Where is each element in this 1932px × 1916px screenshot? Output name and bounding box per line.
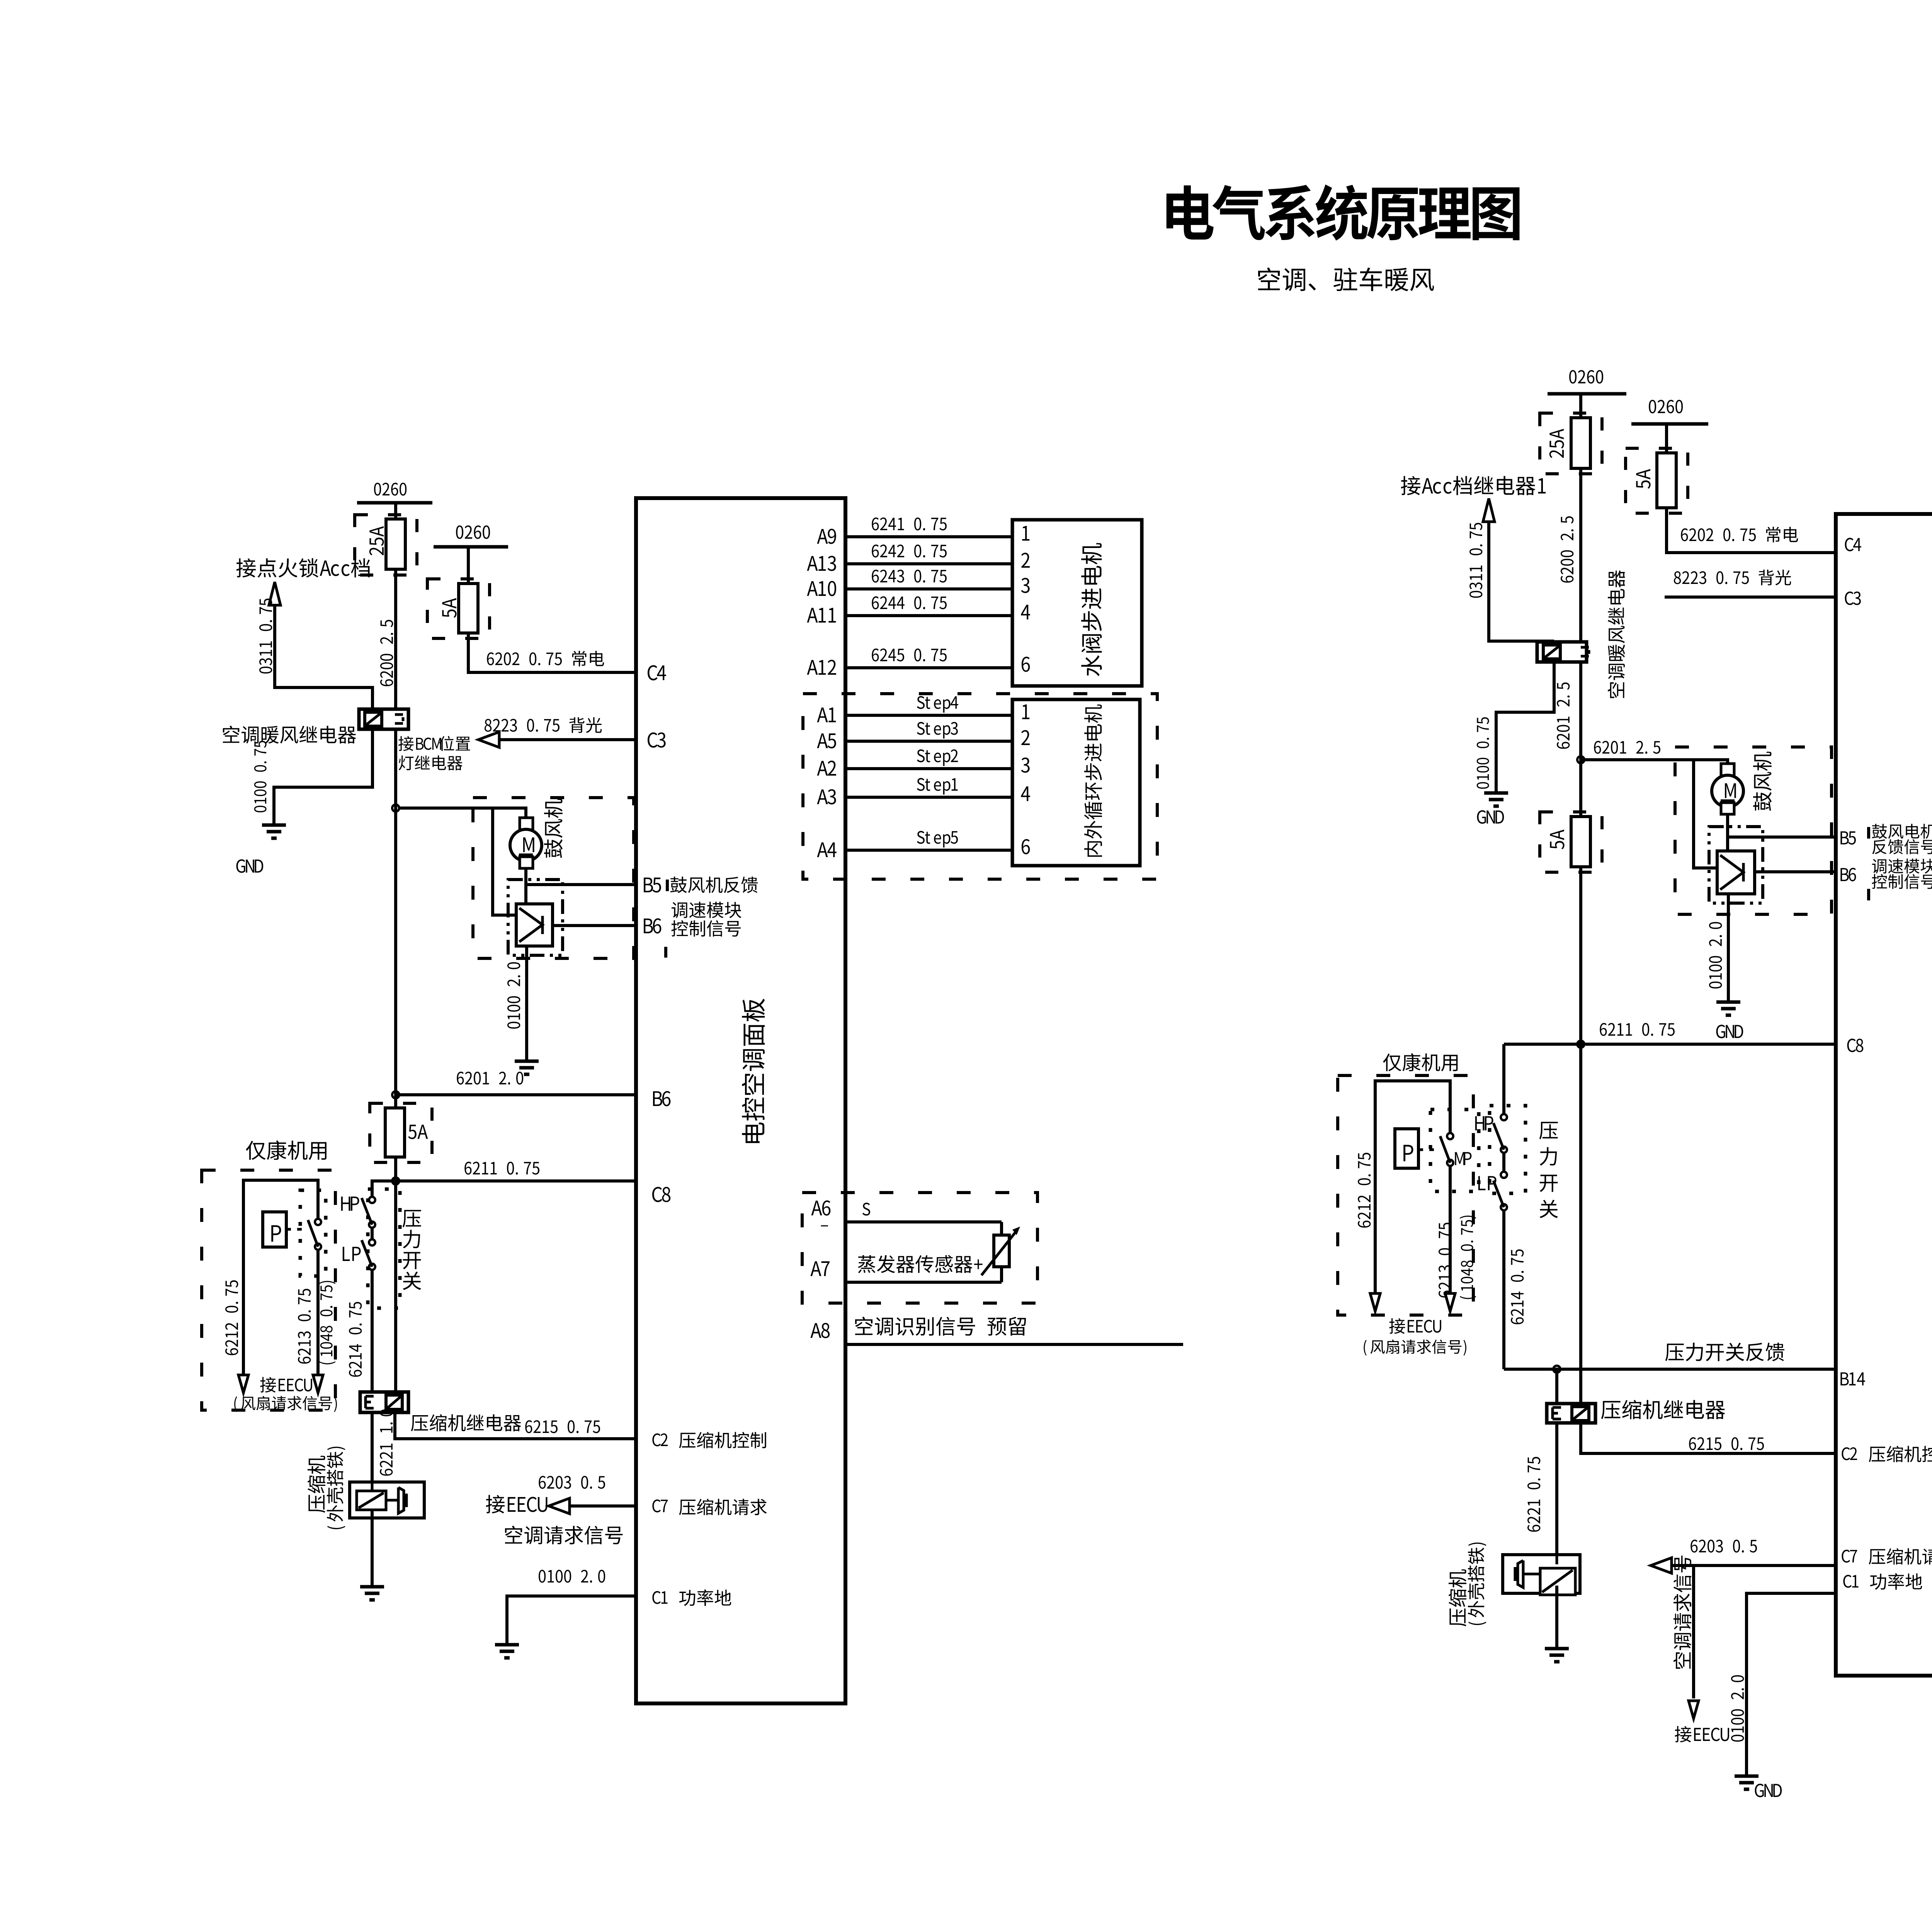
pin C2 right bbox=[1842, 1447, 1857, 1460]
label 5A right bbox=[1636, 469, 1650, 489]
pin A6 bbox=[811, 1200, 830, 1215]
pin C7 right bbox=[1842, 1550, 1857, 1562]
label GND bbox=[236, 859, 264, 873]
power bus 0260 #2 (left) bbox=[456, 526, 490, 539]
wire label 0100 2.0 bbox=[507, 962, 520, 1029]
wire junction to speed module input bbox=[493, 808, 516, 915]
wire 6202 0.75 常电 right bbox=[1667, 508, 1836, 553]
speed module 调速模块 (right) bbox=[1709, 827, 1763, 903]
arrow to EECU 6212 bbox=[238, 1375, 248, 1393]
wire 0311 0.75 (left) bbox=[275, 605, 372, 709]
label 风扇请求信号 (left) bbox=[234, 1396, 337, 1412]
wire 6200 (relay to junction) bbox=[394, 729, 397, 1095]
label 压缩机 right bbox=[1449, 1569, 1466, 1626]
arrow to BCM bbox=[478, 732, 499, 747]
ground (compressor right) bbox=[1545, 1647, 1569, 1651]
pin C8 right bbox=[1847, 1039, 1864, 1052]
pin B14 bbox=[1840, 1372, 1865, 1385]
blower motor M3 鼓风机 (right) bbox=[1721, 764, 1734, 776]
label 空调暖风继电器 bbox=[223, 726, 356, 744]
wire 0311 0.75 right bbox=[1489, 522, 1554, 641]
wire B5 鼓风电机反馈信号 bbox=[1728, 835, 1836, 839]
wire label 0100 2.0 C1 right bbox=[1731, 1675, 1744, 1742]
wire label 6201 2.5 vertical bbox=[1557, 682, 1570, 749]
wire 0100 2.0 C1 right bbox=[1747, 1593, 1836, 1776]
wire 0100 2.0 C1 to ground bbox=[507, 1596, 636, 1645]
wire A8 空调识别信号 bbox=[845, 1343, 1183, 1346]
pin C1 bbox=[652, 1591, 667, 1604]
motor M2 水阀步进电机 (left) bbox=[1012, 520, 1142, 686]
relay K3 空调暖风继电器 (right) bbox=[1537, 642, 1587, 662]
wire label 6214 0.75 bbox=[349, 1302, 362, 1377]
wire label 6202 0.75 常电 bbox=[487, 651, 604, 667]
label 仅康机用 right bbox=[1383, 1053, 1458, 1072]
pin C4 right bbox=[1845, 538, 1861, 551]
dashed box evaporator sensor (left) bbox=[802, 1193, 1037, 1303]
label minus bbox=[821, 1225, 828, 1227]
arrow to EECU 6212 right bbox=[1370, 1293, 1380, 1311]
dotted box pressure switch right bbox=[1490, 1106, 1526, 1193]
wire Step3 pin A5 bbox=[845, 740, 1012, 743]
speed module 调速模块 (left) bbox=[508, 880, 563, 955]
dashed box blower assembly (right) bbox=[1675, 747, 1832, 914]
wire 6215 0.75 to C2 bbox=[395, 1412, 636, 1439]
fuse F3 5A (left lower) bbox=[385, 1108, 405, 1157]
label HP right bbox=[1475, 1116, 1493, 1130]
wire label 0311 0.75 right bbox=[1469, 523, 1482, 598]
label 压缩机请求 bbox=[679, 1499, 767, 1515]
wire bus to fuse bbox=[1579, 394, 1582, 418]
ground (C1 left) bbox=[495, 1643, 519, 1647]
pin C8 bbox=[652, 1187, 670, 1202]
label 5A lower bbox=[408, 1125, 428, 1139]
fuse 5A (right) bbox=[1657, 453, 1676, 508]
arrow C7 to EECU right bbox=[1651, 1558, 1672, 1573]
label 接EECU (left) bbox=[260, 1377, 312, 1393]
wire label 6200 2.5 right bbox=[1561, 516, 1573, 583]
wire 6243 0.75 pin A10 bbox=[845, 587, 1012, 590]
dashed box blower assembly (left) bbox=[473, 798, 634, 958]
label 外壳搭铁 (left) bbox=[327, 1447, 345, 1529]
ground (C1 right) bbox=[1735, 1775, 1759, 1778]
wire B14 junction to relay coil bbox=[1555, 1369, 1558, 1404]
label 功率地 right bbox=[1870, 1573, 1922, 1590]
node junction C8/6211 bbox=[392, 1178, 399, 1184]
label 接EECU C7 bbox=[486, 1495, 547, 1513]
ground (module right) bbox=[1716, 1001, 1740, 1004]
wire junction to blower right bbox=[1581, 760, 1728, 775]
pressure sensor P (left) bbox=[263, 1212, 286, 1247]
pin B6 (power) bbox=[653, 1091, 670, 1106]
node junction 6201 bbox=[392, 1091, 399, 1098]
wire label 0100 0.75 bbox=[254, 741, 267, 812]
label 压力开关 (left) bbox=[403, 1210, 421, 1227]
wire compressor to ground bbox=[371, 1510, 374, 1587]
wire label 6215 0.75 bbox=[525, 1420, 600, 1433]
wire 6213 right bbox=[1449, 1166, 1452, 1293]
label 内外循环步进电机 (left) bbox=[1084, 704, 1102, 857]
label 接BCM位置 bbox=[398, 736, 470, 751]
wire 6212 right bbox=[1375, 1081, 1450, 1293]
node junction B14 bbox=[1553, 1366, 1560, 1373]
label 压缩机控制 bbox=[679, 1432, 766, 1448]
label 5A main right bbox=[1550, 830, 1564, 849]
wire 6203 0.5 C7 to EECU bbox=[567, 1504, 636, 1508]
pressure switch HP (left) bbox=[369, 1197, 375, 1203]
label 接EECU right bbox=[1389, 1318, 1441, 1334]
ECU box 自动空调 bbox=[1836, 514, 1932, 1676]
wire B6 调速模块控制信号 bbox=[553, 924, 636, 927]
wire 6245 0.75 pin A12 bbox=[845, 666, 1012, 669]
wire junction to blower motor bbox=[400, 808, 526, 830]
wire Step4 pin A1 bbox=[845, 714, 1012, 717]
fuse F1 25A (left) bbox=[386, 519, 405, 569]
pressure sensor P (right) bbox=[1395, 1129, 1418, 1168]
dashed box 仅康机用 (left) bbox=[202, 1170, 335, 1410]
relay K1 空调暖风继电器 (left) bbox=[359, 709, 408, 729]
wire label 0100 2.0 C1 bbox=[539, 1570, 605, 1582]
fuse 25A (right) bbox=[1571, 418, 1590, 468]
pin C3 right bbox=[1845, 592, 1861, 605]
dash mark B6 right bbox=[1867, 889, 1870, 900]
wire 6211 0.75 to C8 bbox=[396, 1179, 636, 1183]
wire label 6203 0.5 right bbox=[1690, 1540, 1757, 1552]
wire 6201 2.5 main vertical right bbox=[1579, 662, 1582, 1404]
wire 6215 0.75 right bbox=[1581, 1423, 1836, 1453]
label 压缩机 (left) bbox=[308, 1456, 325, 1513]
label 5A bbox=[442, 598, 456, 618]
wire A7 (sensor return) bbox=[845, 1281, 1002, 1284]
wire HP to LP bbox=[371, 1228, 374, 1239]
label 压缩机继电器 (left) bbox=[411, 1414, 521, 1431]
label 空调识别信号 预留 (left) bbox=[855, 1317, 1026, 1336]
label 空调暖风继电器 right bbox=[1608, 570, 1625, 698]
wire label 0100 0.75 right bbox=[1477, 717, 1489, 789]
fuse 5A main (right) bbox=[1571, 817, 1590, 867]
wire label 8223 right bbox=[1674, 570, 1791, 585]
compressor 压缩机 (right) bbox=[1503, 1555, 1580, 1593]
compressor 压缩机 (left) bbox=[350, 1482, 424, 1518]
dash mark B6 bbox=[664, 947, 667, 958]
label LP right bbox=[1478, 1176, 1497, 1190]
wire 6242 0.75 pin A13 bbox=[845, 562, 1012, 565]
relay K2 压缩机继电器 (left) bbox=[360, 1392, 408, 1412]
wire compressor to ground right bbox=[1555, 1586, 1558, 1649]
wire B5 鼓风机反馈 bbox=[526, 885, 636, 904]
wire label 6212 0.75 right bbox=[1358, 1153, 1371, 1228]
wire junction to fuse F3 bbox=[394, 1095, 397, 1181]
dotted box MP switch (left) bbox=[300, 1190, 326, 1276]
label 压缩机继电器 right bbox=[1601, 1400, 1725, 1419]
pin B6 (module) bbox=[644, 918, 661, 933]
wire C8 junction to pressure switch bbox=[372, 1181, 396, 1197]
wire label 6212 0.75 bbox=[225, 1280, 238, 1355]
node junction C8 right bbox=[1577, 1041, 1584, 1048]
ground (blower module) bbox=[515, 1060, 539, 1063]
label GND C1 right bbox=[1755, 1784, 1782, 1797]
wire label 6203 0.5 bbox=[539, 1476, 605, 1489]
label GND module right bbox=[1716, 1025, 1743, 1038]
arrow to Acc bbox=[269, 582, 281, 605]
label 风扇请求信号 right bbox=[1364, 1339, 1466, 1356]
label 压力开关反馈 bbox=[1665, 1343, 1784, 1361]
label 控制信号 bbox=[671, 920, 740, 937]
node junction 6201 right bbox=[1577, 756, 1584, 763]
wire 8223 0.75 背光 right bbox=[1665, 596, 1836, 599]
label 压缩机控制 right bbox=[1869, 1446, 1932, 1462]
dotted box pressure switch (left) bbox=[368, 1189, 400, 1308]
node junction blower tap bbox=[392, 805, 399, 812]
blower motor M1 鼓风机 (left) bbox=[520, 818, 533, 830]
wire 6212 branch (left) bbox=[243, 1180, 318, 1378]
wire blower to speed module bbox=[524, 868, 527, 904]
wire label (1048 0.75) bbox=[319, 1281, 336, 1365]
wire module to ground right bbox=[1727, 894, 1730, 1002]
label 鼓风电机 bbox=[1872, 824, 1932, 839]
wire B6 调速模块控制信号 bbox=[1755, 870, 1836, 873]
ground GND (left relay) bbox=[262, 824, 286, 827]
pressure switch LP (left) bbox=[369, 1239, 375, 1246]
dashed box 内外循环 group (left) bbox=[803, 694, 1157, 879]
dashed box 仅康机用 (right) bbox=[1338, 1075, 1473, 1315]
wire relay coil to ground (right) bbox=[1496, 662, 1554, 793]
ground (compressor left) bbox=[360, 1585, 384, 1589]
wire label 6213 0.75 bbox=[298, 1289, 311, 1364]
relay K4 压缩机继电器 (right) bbox=[1547, 1404, 1595, 1423]
wire 8223 0.75 背光 to C3 bbox=[499, 738, 636, 741]
pin C7 bbox=[652, 1499, 668, 1512]
label MP bbox=[1455, 1152, 1471, 1165]
wire label 6215 0.75 right bbox=[1689, 1437, 1764, 1450]
wire junction to module right bbox=[1694, 760, 1717, 868]
label 鼓风机 bbox=[544, 799, 563, 858]
wire label 6201 2.5 horizontal bbox=[1594, 741, 1660, 754]
label 接Acc档继电器1 bbox=[1401, 476, 1546, 495]
wire 6200 2.5 (fuse to relay) bbox=[394, 569, 397, 709]
wire label 0311 0.75 bbox=[259, 599, 272, 674]
label 空调请求信号 (left) bbox=[505, 1526, 623, 1544]
wire blower to module right bbox=[1726, 814, 1729, 851]
wire Step5 pin A4 bbox=[845, 849, 1012, 852]
ECU box 电控空调面板 bbox=[636, 498, 845, 1703]
arrow to EECU 6213 right bbox=[1445, 1293, 1455, 1311]
label 鼓风机反馈 bbox=[670, 876, 758, 893]
wire A6 S (sensor signal) bbox=[845, 1220, 1002, 1223]
subtitle 空调、驻车暖风 bbox=[1258, 267, 1434, 291]
pin A8 bbox=[810, 1323, 830, 1338]
wire label 6200 2.5 bbox=[380, 620, 393, 686]
wire 空调请求信号 down bbox=[1692, 1565, 1695, 1698]
wire 6244 0.75 pin A11 bbox=[845, 614, 1012, 617]
label HP bbox=[341, 1196, 359, 1211]
wire (bus2 to fuse 5A) bbox=[467, 547, 470, 584]
wire label 6201 2.0 bbox=[457, 1072, 523, 1084]
wire 6203 0.5 C7 right bbox=[1672, 1564, 1836, 1567]
label 25A bbox=[369, 526, 384, 555]
label 控制信号 right bbox=[1872, 874, 1932, 889]
pin B6 right bbox=[1840, 868, 1856, 881]
pin C4 bbox=[648, 665, 666, 680]
label 反馈信号 bbox=[1872, 839, 1932, 854]
wire 压力开关反馈 B14 bbox=[1504, 1368, 1836, 1371]
label 调速模块 bbox=[672, 902, 742, 918]
switch MP (right) bbox=[1447, 1133, 1453, 1139]
label 25A right bbox=[1549, 429, 1564, 458]
pin C3 bbox=[648, 732, 666, 747]
wire label 6202 right bbox=[1681, 527, 1798, 543]
title 电气系统原理图 bbox=[1167, 184, 1520, 240]
wire C8 to HP right bbox=[1502, 1044, 1505, 1114]
wire module output to ground 0100 2.0 bbox=[525, 946, 528, 1061]
thermistor 蒸发器传感器 bbox=[1000, 1222, 1003, 1235]
wire label 6214 0.75 right bbox=[1511, 1249, 1524, 1324]
fuse F2 5A (left) bbox=[459, 584, 478, 633]
ground (relay right) bbox=[1484, 791, 1508, 795]
wire 6213 0.75 to EECU bbox=[316, 1250, 320, 1378]
label 外壳搭铁 right bbox=[1468, 1543, 1486, 1625]
motor M3 内外循环步进电机 (left) bbox=[1012, 699, 1140, 866]
wire 6221 0.75 to compressor bbox=[1555, 1423, 1558, 1555]
wire 6201 2.0 to B6 bbox=[396, 1093, 636, 1096]
wire 6211 0.75 right bbox=[1504, 1043, 1836, 1046]
wire label 6221 1.0 bbox=[380, 1409, 393, 1476]
label 接EECU bottom right bbox=[1675, 1726, 1729, 1742]
wire label 8223 0.75 背光 bbox=[485, 717, 602, 733]
wire 6214 to B14 bbox=[1502, 1210, 1505, 1369]
label 接点火锁Acc档 bbox=[236, 558, 370, 577]
label 蒸发器传感器+ bbox=[858, 1255, 982, 1273]
wire label 6211 0.75 bbox=[464, 1162, 539, 1174]
pin B5 right bbox=[1840, 831, 1856, 844]
label 空调请求信号 right bbox=[1673, 1555, 1691, 1669]
power bus 0260 #2 (right) bbox=[1649, 400, 1683, 413]
pin A7 bbox=[810, 1261, 830, 1276]
pin B5 bbox=[644, 878, 661, 893]
wire Step1 pin A3 bbox=[845, 796, 1012, 799]
pressure switch LP (right) bbox=[1501, 1172, 1507, 1178]
label 水阀步进电机 (left) bbox=[1081, 543, 1102, 676]
wire label 6221 0.75 right bbox=[1527, 1457, 1540, 1532]
power bus 0260 (right) bbox=[1569, 370, 1603, 384]
pressure switch HP (right) bbox=[1501, 1114, 1507, 1120]
switch MP (left) bbox=[315, 1219, 321, 1225]
dotted box MP right bbox=[1430, 1109, 1479, 1191]
arrow to EECU bottom bbox=[1689, 1701, 1699, 1719]
wire main to compressor relay coil bbox=[394, 1181, 397, 1392]
wire relay coil to ground 0100 0.75 bbox=[274, 729, 372, 825]
label 调速模块 right bbox=[1872, 859, 1932, 874]
wire 6200 2.5 right bbox=[1579, 468, 1582, 642]
label 鼓风机 right bbox=[1753, 752, 1772, 811]
power bus 0260 (left) bbox=[374, 483, 406, 495]
wire 6241 0.75 pin A9 bbox=[845, 535, 1012, 538]
wire label (1048 0.75) right bbox=[1460, 1216, 1476, 1299]
wire 6200 vertical segment (bus to fuse) bbox=[394, 503, 397, 519]
pin C2 bbox=[652, 1433, 668, 1446]
label 压力开关 right bbox=[1539, 1122, 1558, 1139]
wire 6202 0.75 常电 to C4 bbox=[468, 633, 636, 672]
wire label 6211 0.75 right bbox=[1600, 1023, 1675, 1036]
label 压缩机请求 right bbox=[1869, 1548, 1932, 1565]
wire label 6213 0.75 right bbox=[1439, 1223, 1451, 1298]
arrow to Acc relay bbox=[1483, 499, 1495, 522]
label GND right bbox=[1477, 810, 1504, 824]
label LP bbox=[343, 1247, 361, 1261]
arrow to EECU 6213 bbox=[313, 1375, 323, 1393]
wire label 0100 2.0 right blower bbox=[1709, 922, 1722, 989]
label 电控空调面板 bbox=[742, 999, 765, 1143]
pin C1 right bbox=[1843, 1575, 1858, 1588]
label 功率地 bbox=[679, 1589, 731, 1606]
wire Step2 pin A2 bbox=[845, 767, 1012, 770]
label S bbox=[862, 1203, 870, 1215]
label 仅康机用 bbox=[246, 1140, 327, 1160]
dash mark B5 bbox=[666, 880, 669, 891]
arrow C7 to EECU bbox=[549, 1498, 570, 1514]
wire 6221 1.0 relay to compressor bbox=[371, 1412, 374, 1482]
wire LP to compressor relay 6214 0.75 bbox=[371, 1270, 374, 1392]
dash mark B5 right bbox=[1867, 827, 1870, 839]
